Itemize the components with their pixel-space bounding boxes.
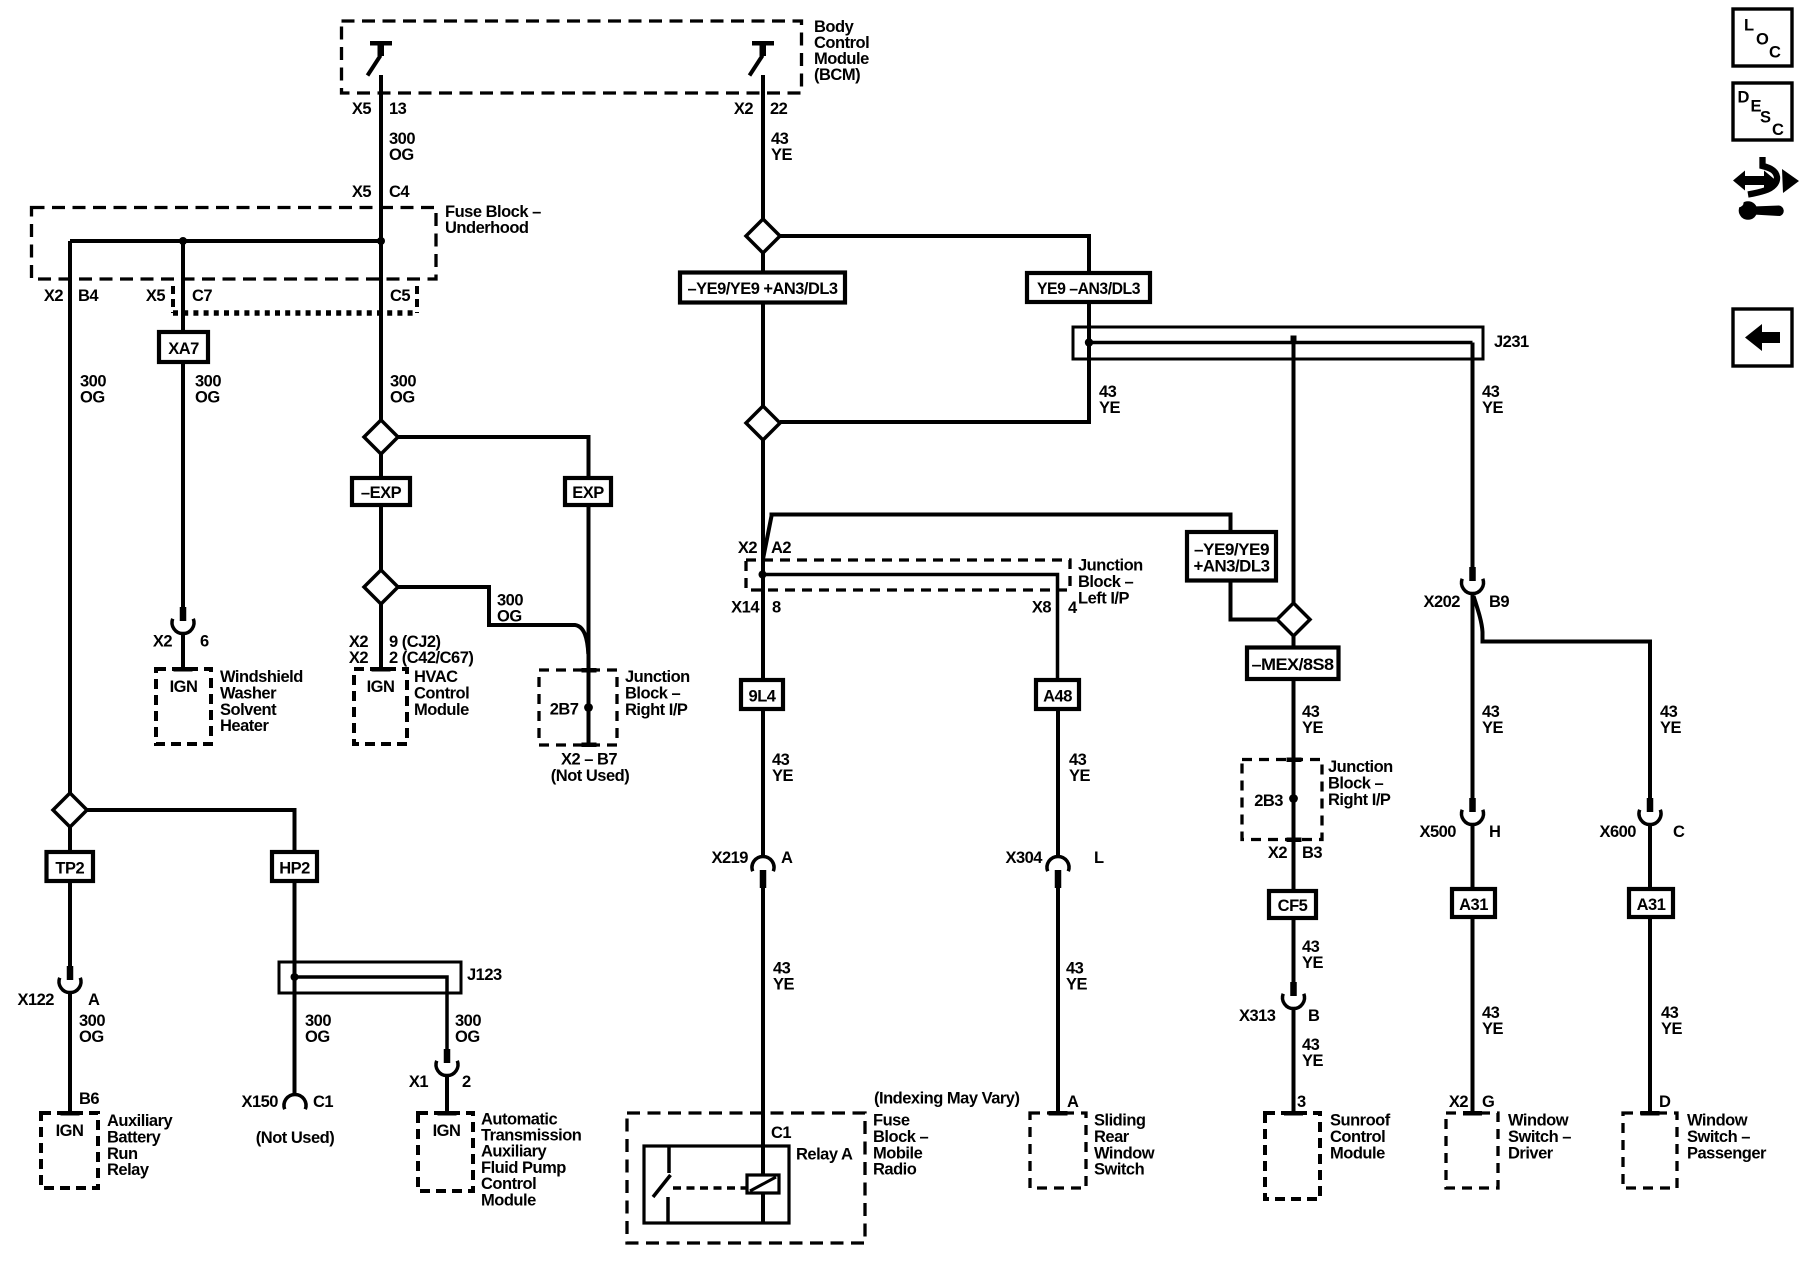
fuse 9L4 [741,680,783,709]
back arrow icon box [1733,309,1792,366]
svg-text:YE: YE [771,146,793,164]
wire HP2 down through J123 to X150 [293,881,297,1096]
wire X122 to aux battery run relay [68,993,72,1114]
Fuse Block Mobile Radio dashed box [627,1113,865,1243]
svg-text:Auxiliary: Auxiliary [107,1112,174,1130]
svg-text:X2: X2 [1268,844,1288,862]
connector X202-B9 pin and cup [1462,567,1484,594]
svg-text:YE: YE [1099,399,1121,417]
wire from diamond to EXP and down to 2B7 [398,437,589,743]
connector X122-A pin and cup [59,966,81,993]
svg-text:L: L [1094,849,1104,867]
svg-text:Switch: Switch [1094,1161,1145,1179]
svg-text:OG: OG [195,389,220,407]
connector X1-2 pin and cup [436,1049,458,1076]
svg-text:C5: C5 [390,287,410,305]
Window Switch Passenger box [1623,1111,1677,1188]
svg-text:YE: YE [1660,719,1682,737]
svg-text:9L4: 9L4 [749,688,777,706]
splice diamond D4 [746,219,780,253]
wire fuse block internal bus [70,239,381,243]
svg-text:Washer: Washer [220,684,277,702]
wire X1-2 to fluid pump module [445,1076,449,1114]
svg-text:YE: YE [1482,399,1504,417]
svg-text:(Not Used): (Not Used) [551,767,629,785]
node fuse bus right junction dot [377,237,385,245]
BCM driver pin X2-22 [750,41,775,76]
svg-text:X219: X219 [711,849,748,867]
BCM dashed box [342,21,802,93]
wire junction block left bus to A48 [763,575,1058,681]
svg-text:TP2: TP2 [55,860,84,878]
svg-text:YE: YE [1066,976,1088,994]
svg-text:Driver: Driver [1508,1144,1554,1162]
svg-text:Radio: Radio [873,1161,917,1179]
Windshield Washer Solvent Heater box [156,667,211,744]
svg-text:X5: X5 [352,183,372,201]
svg-text:13: 13 [389,100,407,118]
connector X304-L cap and pin [1047,856,1069,888]
svg-text:Block –: Block – [1328,774,1384,792]
svg-text:YE: YE [1482,1020,1504,1038]
svg-text:Sliding: Sliding [1094,1112,1146,1130]
fuse A31 passenger [1629,889,1673,917]
svg-text:Windshield: Windshield [220,668,303,686]
svg-text:X2: X2 [1449,1093,1469,1111]
svg-text:B3: B3 [1302,844,1322,862]
svg-text:A: A [1067,1093,1079,1111]
svg-text:X500: X500 [1419,823,1456,841]
svg-text:4: 4 [1068,599,1078,617]
wire 9L4 to X219 [761,709,765,858]
svg-text:L: L [1744,17,1754,35]
svg-text:Control: Control [1330,1128,1385,1146]
wire 300 OG branch from lower diamond merging to 2B7 [398,587,588,654]
connector X219-A cap and pin [752,856,774,888]
svg-text:Junction: Junction [1078,557,1143,575]
svg-text:S: S [1760,108,1771,126]
fuse EXP [565,478,611,505]
svg-text:X1: X1 [409,1073,429,1091]
svg-text:Fuse: Fuse [873,1112,910,1130]
svg-text:Passenger: Passenger [1687,1144,1767,1162]
wire J231 internal bus [1089,341,1473,345]
svg-text:A31: A31 [1459,896,1488,914]
svg-text:HP2: HP2 [279,860,310,878]
connector X500-H pin and cup [1461,798,1483,825]
svg-text:C: C [1673,823,1685,841]
svg-text:Junction: Junction [1328,758,1393,776]
svg-text:2 (C42/C67): 2 (C42/C67) [389,649,473,667]
svg-text:YE: YE [1302,719,1324,737]
svg-text:Window: Window [1094,1144,1155,1162]
Junction Block Left IP dashed box [746,560,1070,590]
svg-text:Rear: Rear [1094,1128,1130,1146]
wire box2 exit down to diamond D6 [1231,581,1278,620]
svg-text:Window: Window [1508,1112,1569,1130]
Window Switch Driver box [1446,1111,1498,1188]
svg-text:YE: YE [1069,767,1091,785]
svg-text:OG: OG [497,608,522,626]
wire J231 left exit down and left to diamond D5 [780,343,1089,423]
svg-text:C4: C4 [389,183,410,201]
node J123 dot [291,973,299,981]
svg-text:A2: A2 [771,539,791,557]
svg-text:O: O [1756,31,1769,49]
svg-text:G: G [1482,1093,1494,1111]
svg-text:Block –: Block – [1078,573,1134,591]
svg-text:Control: Control [414,684,469,702]
fuse A48 [1036,680,1079,709]
svg-text:X600: X600 [1599,823,1636,841]
svg-text:22: 22 [770,100,788,118]
svg-text:Relay: Relay [107,1161,150,1179]
node fuse bus left junction dot [179,237,187,245]
wire X2-B4 left column down [68,241,72,852]
svg-text:YE: YE [773,976,795,994]
svg-text:Relay A: Relay A [796,1146,853,1164]
svg-text:YE9 –AN3/DL3: YE9 –AN3/DL3 [1037,280,1140,298]
svg-text:Sunroof: Sunroof [1330,1112,1391,1130]
svg-text:Right I/P: Right I/P [625,701,688,719]
svg-text:Block –: Block – [873,1128,929,1146]
svg-text:OG: OG [79,1028,104,1046]
svg-text:IGN: IGN [367,678,395,696]
connector X150-C1 open cup [284,1094,306,1109]
svg-text:IGN: IGN [433,1122,461,1140]
relay A inner box [644,1146,789,1223]
svg-text:6: 6 [200,633,209,651]
svg-text:X202: X202 [1423,593,1460,611]
svg-text:YE: YE [1302,954,1324,972]
DESC icon box [1733,83,1792,140]
svg-text:Junction: Junction [625,668,690,686]
svg-text:A: A [781,849,793,867]
svg-text:YE: YE [1661,1020,1683,1038]
transfer wrench icon [1733,157,1799,220]
svg-text:X2 – B7: X2 – B7 [561,751,617,769]
fuse CF5 [1269,891,1316,918]
svg-text:C1: C1 [313,1093,333,1111]
svg-text:Heater: Heater [220,717,269,735]
wire J123 internal bus to right branch [295,977,448,1049]
svg-text:C: C [1772,121,1784,139]
svg-text:CF5: CF5 [1278,897,1308,915]
LOC icon box [1733,9,1792,66]
splice diamond D5 [746,406,780,440]
svg-text:X2: X2 [44,287,64,305]
svg-text:D: D [1659,1093,1671,1111]
svg-text:X2: X2 [153,633,173,651]
svg-text:(Not Used): (Not Used) [256,1129,334,1147]
connector X600-C pin and cup [1639,798,1661,825]
svg-text:XA7: XA7 [168,340,199,358]
svg-text:YE: YE [772,767,794,785]
wire diamond D3 branch to HP2 [87,810,295,852]
splice diamond D2 [364,570,398,604]
wire YE9 box down into J231 [1087,300,1091,343]
svg-text:OG: OG [390,389,415,407]
splice pack -MEX/8S8 [1247,648,1339,680]
svg-text:8: 8 [772,599,781,617]
svg-text:J231: J231 [1494,333,1529,351]
svg-text:2B7: 2B7 [550,701,579,719]
svg-text:Right I/P: Right I/P [1328,791,1391,809]
svg-text:B4: B4 [78,287,99,305]
splice diamond D3 [53,793,87,827]
fuse TP2 [47,852,94,881]
fuse HP2 [272,852,317,881]
splice pack YE9 -AN3/DL3 [1027,273,1150,302]
wire J231 middle tap down to diamond D6 [1292,343,1296,604]
svg-text:B: B [1308,1007,1320,1025]
svg-text:X8: X8 [1032,599,1052,617]
svg-text:2: 2 [462,1073,471,1091]
svg-text:B9: B9 [1489,593,1509,611]
svg-text:A31: A31 [1637,896,1666,914]
svg-text:H: H [1489,823,1500,841]
svg-text:A48: A48 [1043,688,1072,706]
wire X5-13 from BCM down through fuse block to diamond [379,75,383,669]
svg-text:–YE9/YE9 +AN3/DL3: –YE9/YE9 +AN3/DL3 [688,280,838,298]
svg-text:Window: Window [1687,1112,1748,1130]
connector X2-6 pin and cup [172,607,194,634]
svg-text:Run: Run [107,1145,138,1163]
svg-text:C: C [1769,44,1781,62]
svg-text:YE: YE [1482,719,1504,737]
fuse block sub connector dashed edges [171,286,175,313]
svg-text:D: D [1738,89,1750,107]
svg-text:IGN: IGN [56,1122,84,1140]
wire X304 to sliding rear window switch [1056,888,1060,1113]
wire BCM X2-22 down to junction block left IP and 9L4 [761,75,765,680]
fuse A31 driver [1452,889,1495,917]
junction block J231 [1073,327,1483,359]
Auxiliary Battery Run Relay box [41,1111,98,1188]
svg-text:X2: X2 [734,100,754,118]
Junction Block Right IP 2B3 box [1242,758,1322,843]
svg-text:X5: X5 [146,287,166,305]
fuse block sub connector dotted bottom [173,310,417,316]
node J231 left dot [1085,338,1093,346]
svg-text:Solvent: Solvent [220,701,277,719]
fuse XA7 [159,332,208,362]
wire A48 to X304 [1056,709,1060,858]
wire -MEX/8S8 down through 2B3 CF5 X313 to sunroof module [1292,679,1296,982]
relay switch contact [653,1146,671,1223]
svg-text:X313: X313 [1239,1007,1276,1025]
svg-text:OG: OG [389,146,414,164]
svg-text:+AN3/DL3: +AN3/DL3 [1194,558,1270,576]
svg-text:OG: OG [455,1028,480,1046]
svg-text:Battery: Battery [107,1128,162,1146]
svg-text:C7: C7 [192,287,212,305]
wire D6 to -MEX/8S8 [1292,636,1296,648]
svg-text:–MEX/8S8: –MEX/8S8 [1252,656,1334,674]
svg-text:Module: Module [1330,1144,1385,1162]
svg-text:Switch –: Switch – [1687,1128,1750,1146]
wire X500 to A31 to window switch driver [1471,825,1475,1114]
wire relay coil bottom to inner box bottom [761,1193,765,1223]
svg-text:X5: X5 [352,100,372,118]
splice diamond D6 [1277,603,1310,636]
svg-text:Module: Module [414,701,469,719]
svg-text:OG: OG [80,389,105,407]
wire X202 down to X500 [1471,594,1475,799]
junction block J123 [279,962,461,993]
connector X313-B pin and cup [1283,982,1305,1009]
wire X600 to A31 to window switch passenger [1648,825,1652,1114]
relay actuation dashed link [673,1186,747,1190]
svg-text:Underhood: Underhood [445,219,529,237]
splice diamond D1 [364,420,398,454]
BCM driver pin X5-13 [368,41,393,76]
svg-text:3: 3 [1297,1093,1306,1111]
svg-text:(BCM): (BCM) [814,66,860,84]
svg-text:YE: YE [1302,1052,1324,1070]
splice pack -YE9/YE9 +AN3/DL3 box2 [1187,532,1276,581]
wire X5-C7 through XA7 to heater [181,241,185,607]
relay coil box [747,1175,779,1193]
Automatic Transmission Auxiliary Fluid Pump Control Module box [418,1111,473,1191]
svg-text:IGN: IGN [170,678,198,696]
svg-text:A: A [88,991,100,1009]
Junction Block Right IP 2B7 box [539,668,617,747]
HVAC Control Module box [354,667,407,744]
svg-text:–EXP: –EXP [361,484,402,502]
node junction block left dot [759,571,767,579]
wire branch X2-A2 to -YE9/YE9 +AN3/DL3 box [763,515,1231,560]
svg-text:X2: X2 [738,539,758,557]
svg-text:C1: C1 [771,1124,791,1142]
node 2B3 terminal dot [1289,794,1298,803]
Sliding Rear Window Switch box [1030,1111,1086,1188]
svg-text:B6: B6 [79,1090,99,1108]
splice pack -YE9/YE9 +AN3/DL3 box1 [680,273,845,303]
Fuse Block Underhood dashed box [32,208,437,280]
wire X202 branch right to X600 [1474,596,1651,798]
svg-text:HVAC: HVAC [414,668,458,686]
wire diamond D4 branch to YE9-AN3/DL3 [780,236,1089,300]
svg-text:Block –: Block – [625,684,681,702]
svg-text:Switch –: Switch – [1508,1128,1571,1146]
wire X219 to relay A coil [761,888,765,1175]
svg-text:Module: Module [481,1191,536,1209]
svg-text:OG: OG [305,1028,330,1046]
fuse -EXP [352,478,410,505]
svg-text:X122: X122 [17,991,54,1009]
svg-text:Mobile: Mobile [873,1144,923,1162]
svg-text:–YE9/YE9: –YE9/YE9 [1194,541,1269,559]
wire X2-6 cup to heater box [181,634,185,670]
svg-text:EXP: EXP [572,484,604,502]
svg-text:X2: X2 [349,649,369,667]
svg-text:X150: X150 [241,1093,278,1111]
svg-text:X14: X14 [731,599,760,617]
svg-text:Left I/P: Left I/P [1078,589,1129,607]
svg-text:X304: X304 [1005,849,1043,867]
node 2B7 terminal dot [584,703,593,712]
wire TP2 down to X122 [68,881,72,966]
wire J231 right exit down to X202 [1471,343,1475,568]
Sunroof Control Module box [1265,1111,1320,1199]
svg-text:J123: J123 [467,966,502,984]
svg-text:(Indexing May Vary): (Indexing May Vary) [874,1090,1019,1108]
wire X313 to sunroof control module [1292,1009,1296,1113]
svg-text:2B3: 2B3 [1254,792,1283,810]
